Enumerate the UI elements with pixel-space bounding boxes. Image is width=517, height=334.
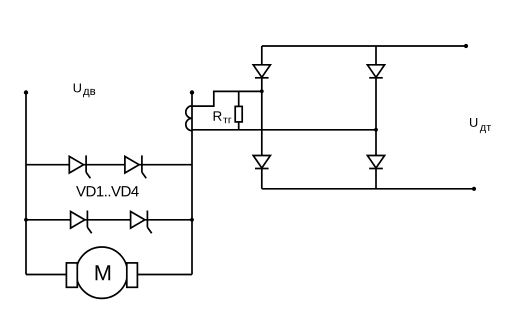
node: Uдт bottom terminal bbox=[472, 187, 476, 191]
node: bridge right AC input bbox=[374, 128, 378, 132]
wire: bridge top rail bbox=[262, 45, 466, 47]
diode bridge top-left bbox=[253, 65, 270, 78]
node: junction row 2 left bbox=[24, 218, 28, 222]
label Uдт subscript bbox=[480, 125, 491, 133]
diode bridge bottom-right bbox=[367, 156, 384, 169]
diode bridge bottom-left bbox=[253, 156, 270, 169]
label Rтг subscript bbox=[223, 118, 231, 124]
wire: bridge bottom rail bbox=[262, 188, 474, 190]
thyristor VD1 bbox=[69, 155, 90, 178]
label Rтг bbox=[214, 111, 222, 120]
wire: bridge right branch vertical bbox=[375, 46, 377, 189]
thyristor VD4 bbox=[131, 211, 152, 234]
node: top-left terminal of Uдв bbox=[24, 90, 28, 94]
wire: bridge left branch vertical bbox=[261, 46, 263, 189]
motor brush left bbox=[66, 263, 77, 287]
motor M armature circle bbox=[76, 247, 127, 298]
wire: motor row left bbox=[26, 274, 67, 276]
wire: left vertical branch of motor circuit bbox=[25, 93, 27, 275]
wire: right vertical branch of motor circuit bbox=[191, 93, 193, 275]
inductor: tachogenerator winding arcs bbox=[186, 106, 192, 131]
label M bbox=[96, 265, 111, 280]
wire: coil top to Rтг top leg bbox=[192, 91, 262, 106]
node: top-right terminal of Uдв bbox=[190, 90, 194, 94]
label VD1..VD4 bbox=[76, 186, 139, 196]
label Uдв bbox=[74, 83, 81, 92]
node: junction row 2 right bbox=[190, 218, 194, 222]
diode bridge top-right bbox=[367, 65, 384, 78]
wire: middle wire coil bottom to bridge right branch bbox=[192, 129, 376, 131]
node: bridge left AC input bbox=[260, 89, 264, 93]
label Uдт bbox=[470, 118, 477, 127]
node: Uдт top terminal bbox=[464, 44, 468, 48]
label Uдв subscript bbox=[83, 89, 95, 97]
resistor Rтг leads bbox=[238, 91, 240, 129]
wire: motor row right bbox=[137, 274, 192, 276]
thyristor VD3 bbox=[71, 211, 92, 234]
motor brush right bbox=[127, 263, 138, 287]
wire: thyristor row 1 horizontal bbox=[26, 164, 192, 166]
wire: thyristor row 2 horizontal bbox=[26, 219, 192, 221]
resistor Rтг body bbox=[235, 106, 242, 122]
thyristor VD2 bbox=[125, 155, 146, 178]
